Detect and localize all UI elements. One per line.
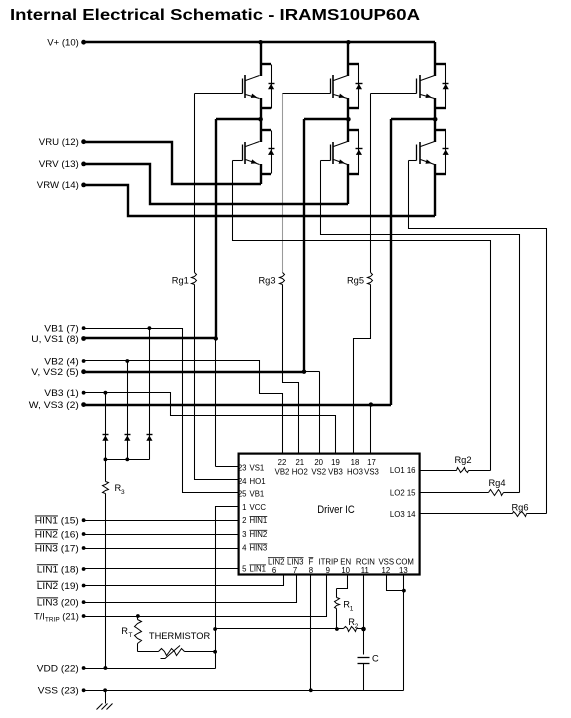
resistor R2 [337,617,364,632]
wire VRV: pin 13 to low-side emitter V [84,164,348,204]
svg-text:24: 24 [238,477,247,486]
svg-text:LO1 16: LO1 16 [390,466,416,475]
wire VRU: pin 12 to low-side emitter U [84,142,261,184]
node: phase W output junction [433,117,438,122]
pin HIN2 (16) [35,529,86,539]
diode D3 (freewheel, phase V high-side) [356,65,363,109]
transistor Q2 (IGBT, phase U low-side) [243,142,260,165]
resistor Rg5 (HO3 gate) [347,94,373,454]
svg-text:LIN1 (18): LIN1 (18) [37,564,79,574]
wire: Q3 emitter to phase node V [347,98,359,120]
svg-text:T: T [129,632,133,639]
svg-text:17: 17 [367,458,376,467]
svg-text:LIN2 (19): LIN2 (19) [37,581,79,591]
diode D4 (freewheel, phase V low-side) [356,131,363,174]
svg-text:4: 4 [242,544,247,553]
svg-text:LO3 14: LO3 14 [390,510,416,519]
pin V, VS2 (5) [31,367,86,377]
svg-text:HIN3 (17): HIN3 (17) [35,543,79,553]
svg-text:VB2: VB2 [275,467,290,476]
svg-text:12: 12 [382,566,391,575]
thermistor symbol and label [138,631,216,659]
pin VRU (12) [39,137,86,147]
wire VSS rail [84,688,404,692]
U1 pin 8 F label [309,557,314,575]
pin LIN2 (19) [37,581,86,591]
svg-text:Rg6: Rg6 [511,503,528,513]
svg-text:HIN3: HIN3 [250,544,268,553]
svg-text:VS1: VS1 [250,464,265,473]
U1 pin 18 HO3 label [347,458,363,477]
resistor Rg3 (HO2 gate) [258,273,298,454]
wire F: U1 pin 8 to VSS rail [309,575,313,693]
resistor Rg1 (HO1 gate) [172,94,239,480]
svg-text:C: C [372,653,379,663]
svg-text:6: 6 [272,566,276,575]
svg-text:VB1: VB1 [250,489,265,498]
svg-text:W, VS3 (2): W, VS3 (2) [29,400,79,410]
svg-text:3: 3 [121,489,125,496]
wire: EN pull line to VDD node [216,627,339,631]
wire: gate lead Q5 (high-side W) [371,93,417,95]
svg-text:2: 2 [242,516,246,525]
resistor R3 [103,460,126,669]
pin VB3 (1) [44,388,85,398]
svg-text:8: 8 [309,566,313,575]
svg-text:U, VS1 (8): U, VS1 (8) [31,334,79,344]
wire VSS/COM: U1 pins 12,13 to VSS rail [387,575,406,691]
svg-text:23: 23 [238,464,247,473]
wire: Q6 gate route to Rg6 [409,161,547,514]
pin W, VS3 (2) [29,400,86,410]
svg-text:HIN1 (15): HIN1 (15) [35,516,79,526]
wire: gate lead Q3 (high-side V) [283,93,331,95]
wire: Q4 emitter to VRV return [347,164,359,204]
svg-text:Rg3: Rg3 [258,275,275,285]
svg-text:THERMISTOR: THERMISTOR [149,631,211,641]
svg-text:22: 22 [278,458,287,467]
svg-text:1: 1 [350,606,354,613]
pin VSS (23) [38,686,86,696]
svg-text:VB2 (4): VB2 (4) [44,356,79,366]
wire VB1: pin 7 to driver pin 25 [84,326,239,492]
wire W,VS3: phase W node to pin 2 line and driver pin 17 [84,119,435,454]
svg-text:VRV (13): VRV (13) [39,159,79,169]
U1 pin 10 EN label [340,557,351,575]
U1 pin 22 VB2 label [275,458,290,477]
transistor Q1 (IGBT, phase U high-side) [243,75,260,99]
svg-text:VB1 (7): VB1 (7) [44,323,79,333]
svg-text:HO3: HO3 [347,467,363,476]
wire VDD: pin 22 to R3, thermistor, U1 pin 1 VCC [84,507,239,670]
resistor RT [121,617,141,652]
op-amp U1: Driver IC box [239,454,420,575]
svg-text:VDD (22): VDD (22) [37,663,79,673]
svg-text:Rg2: Rg2 [454,455,471,465]
transistor Q6 (IGBT, phase W low-side) [417,142,435,165]
svg-text:25: 25 [238,489,247,498]
pin LIN3 (20) [37,597,86,607]
U1 pin 17 VS3 label [364,458,379,477]
svg-text:10: 10 [341,566,350,575]
resistor R1 [335,589,354,629]
svg-text:Internal Electrical Schematic: Internal Electrical Schematic - IRAMS10U… [10,7,421,24]
svg-text:V+ (10): V+ (10) [47,38,79,48]
U1 pin 21 HO2 label [292,458,308,477]
pin T/ITRIP (21) [34,611,85,623]
diode DB1 (bootstrap, VB1) [146,329,152,460]
wire VB3: pin 1 to driver pin 19 [84,391,336,454]
svg-text:LO2 15: LO2 15 [390,488,416,497]
U1 pin 5 LIN1 label [242,565,266,574]
wire: phase node to Q4 collector (phase V low-side) [347,119,359,142]
svg-text:Rg1: Rg1 [172,275,189,285]
resistor Rg6 (LO3 gate) [420,503,547,517]
pin VB1 (7) [44,323,85,333]
wire LIN1: pin 18 to U1 pin 5 [84,568,239,570]
svg-text:HIN2: HIN2 [250,530,268,539]
wire: Q2 emitter to VRU return [260,164,271,184]
wire T/ITRIP: pin 21 to U1 pin 9 [84,575,327,618]
U1 pin 1 VCC label [242,503,266,512]
U1 pin 3 HIN2 label [242,530,267,539]
svg-text:LIN3 (20): LIN3 (20) [37,597,79,607]
diode D6 (freewheel, phase W low-side) [443,131,449,174]
wire VRW: pin 14 to low-side emitter W [84,185,435,216]
svg-text:R: R [121,626,128,636]
wire: Q5 emitter to phase node W [434,98,446,120]
svg-text:11: 11 [361,566,369,575]
transistor Q3 (IGBT, phase V high-side) [331,75,348,99]
capacitor C [358,653,380,690]
wire: gate lead Q4 (low-side V) [321,160,331,162]
wire V,VS2: phase V node to pin 5 line and driver pin 20 [84,119,348,454]
node: phase V output junction [346,117,351,122]
ground [97,691,113,710]
svg-text:Driver IC: Driver IC [317,504,355,516]
U1 pin 24 HO1 label [238,477,266,486]
wire: Q6 emitter to VRW return [434,164,446,216]
pin U, VS1 (8) [31,334,86,344]
U1 pin 20 VS2 label [311,458,326,477]
pin VDD (22) [37,663,86,673]
wire: V+ to Q5 collector (phase W high-side) [434,42,446,76]
diode D2 (freewheel, phase U low-side) [268,131,275,174]
diode DB2 (bootstrap, VB2) [124,361,130,460]
wire U,VS1: phase U node to pin 8 line and driver pin 23 [84,119,261,467]
U1 pin 12 VSS label [378,557,394,575]
U1 pin 4 HIN3 label [242,544,267,553]
wire RCIN: U1 pin 11 to R2/C node [361,575,366,655]
svg-text:VRW (14): VRW (14) [37,180,79,190]
svg-text:LIN1: LIN1 [250,565,266,574]
wire HIN2: pin 16 to U1 pin 3 [84,534,239,536]
pin HIN3 (17) [35,543,86,553]
svg-text:1: 1 [242,503,246,512]
svg-text:13: 13 [399,566,408,575]
svg-text:VCC: VCC [250,503,267,512]
svg-text:VRU (12): VRU (12) [39,137,79,147]
wire: Q3 gate vertical (gray) [282,94,284,273]
svg-text:18: 18 [351,458,360,467]
U1 pin 2 HIN1 label [242,516,267,525]
wire: bootstrap diode common rail [104,458,150,462]
wire: phase node to Q6 collector (phase W low-side) [434,119,446,142]
wire: Q4 gate route to Rg4 [321,161,520,493]
transistor Q5 (IGBT, phase W high-side) [417,75,435,99]
svg-text:20: 20 [314,458,323,467]
wire LIN2: pin 19 to U1 pin 6 [84,575,284,586]
wire: Q1 emitter to phase node U [260,98,271,120]
svg-text:3: 3 [242,530,246,539]
svg-text:Rg5: Rg5 [347,275,364,285]
svg-text:VS3: VS3 [364,467,379,476]
U1 pin 9 ITRIP label [318,557,338,575]
wire: V+ to Q3 collector (phase V high-side) [347,42,359,76]
diode DB3 (bootstrap, VB3) [102,393,108,460]
svg-text:LIN2: LIN2 [268,557,284,566]
U1 pin 11 RCIN label [356,557,375,575]
svg-text:7: 7 [293,566,297,575]
wire EN: U1 pin 10 jog [337,575,348,589]
pin VRV (13) [39,159,86,169]
diode D1 (freewheel, phase U high-side) [268,65,275,109]
U1 pin 25 VB1 label [238,489,264,498]
svg-text:19: 19 [331,458,340,467]
transistor Q4 (IGBT, phase V low-side) [331,142,348,165]
pin LIN1 (18) [37,564,86,574]
wire HIN1: pin 15 to U1 pin 2 [84,520,239,522]
svg-text:V, VS2 (5): V, VS2 (5) [31,367,79,377]
svg-text:21: 21 [295,458,304,467]
svg-text:2: 2 [355,623,359,630]
svg-text:VB3: VB3 [328,467,343,476]
svg-text:9: 9 [326,566,330,575]
wire: V+ to Q1 collector (phase U high-side) [260,42,271,76]
svg-text:Rg4: Rg4 [488,478,505,488]
U1 pin 19 VB3 label [328,458,343,477]
wire: gate lead Q1 (high-side U) [195,93,243,95]
svg-text:5: 5 [242,565,247,574]
svg-text:VSS (23): VSS (23) [38,686,79,696]
wire: V+ rail [84,40,435,44]
resistor Rg2 (LO1 gate) [420,455,491,473]
U1 pin 6 LIN2 label [268,557,284,575]
svg-text:HO1: HO1 [250,477,266,486]
node: phase U output junction [258,117,263,122]
svg-text:HIN2 (16): HIN2 (16) [35,529,79,539]
U1 pin 23 VS1 label [238,464,264,473]
svg-text:VS2: VS2 [311,467,326,476]
wire: gate lead Q2 (low-side U) [233,160,243,162]
pin VB2 (4) [44,356,85,366]
pin V+ (10) [47,38,86,48]
resistor Rg4 (LO2 gate) [420,478,520,496]
svg-text:HO2: HO2 [292,467,308,476]
U1 pin 13 COM label [396,557,414,575]
pin HIN1 (15) [35,516,86,526]
svg-text:HIN1: HIN1 [250,516,268,525]
wire HIN3: pin 17 to U1 pin 4 [84,548,239,550]
wire: Q2 gate route to Rg2 [233,161,491,471]
U1 pin 7 LIN3 label [287,557,303,575]
pin VRW (14) [37,180,86,190]
wire: gate lead Q6 (low-side W) [409,160,417,162]
wire LIN3: pin 20 to U1 pin 7 [84,575,297,603]
wire: phase node to Q2 collector (phase U low-side) [260,119,271,142]
diode D5 (freewheel, phase W high-side) [443,65,449,109]
svg-text:VB3 (1): VB3 (1) [44,388,79,398]
wire VB2: pin 4 to driver pin 22 [84,359,283,453]
